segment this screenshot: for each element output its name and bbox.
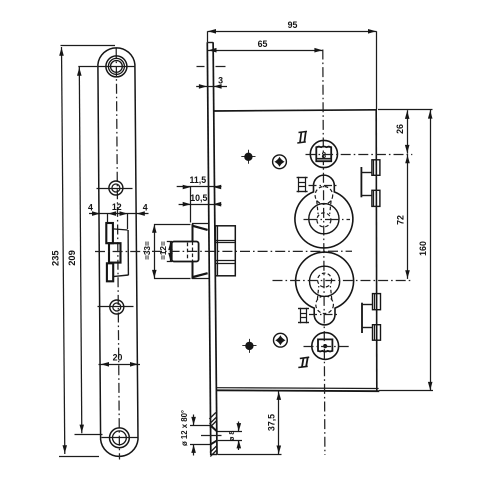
svg-text:10,5: 10,5 [190, 193, 207, 203]
back tab upper 1 [372, 160, 380, 176]
latch head top edge [192, 223, 209, 225]
latch front view middle block [109, 243, 121, 262]
bottom screw hole [110, 428, 130, 448]
latch tail lower band [216, 260, 236, 262]
upper small hole [109, 181, 123, 195]
follower bottom axis [304, 346, 352, 348]
follower top square [316, 147, 331, 162]
countersink funnel bottom [210, 440, 217, 445]
bracket upper [360, 167, 362, 197]
svg-text:209: 209 [67, 250, 77, 266]
cylinder bottom axis [273, 280, 411, 282]
top screw hole [106, 56, 127, 77]
latch axis centerline side [152, 250, 352, 252]
rivet bottom [246, 342, 253, 349]
cylinder top inner circle [309, 204, 339, 234]
dimension o12x80 [193, 415, 195, 426]
case top extension line [378, 109, 433, 111]
cylinder bottom outer profile [296, 252, 354, 325]
svg-text:160: 160 [418, 241, 428, 256]
faceplate side view back edge [213, 42, 217, 455]
top hole axis side view [197, 66, 205, 68]
svg-text:4: 4 [88, 202, 93, 212]
latch bevel bottom [193, 273, 208, 277]
latch head bottom edge [192, 278, 209, 280]
latch bevel top [193, 226, 208, 230]
screw bottom [274, 333, 288, 347]
svg-text:4: 4 [143, 203, 148, 213]
svg-text:72: 72 [395, 215, 405, 225]
follower bottom circle [312, 333, 339, 360]
dimension 3 [196, 86, 227, 88]
plate hatching [209, 413, 216, 420]
screw top [273, 155, 287, 169]
svg-text:37,5: 37,5 [266, 414, 276, 431]
lower small hole [110, 300, 124, 314]
latch head front edge [192, 224, 194, 242]
case bottom edge outer [216, 389, 379, 392]
dimension 37,5 [278, 391, 280, 454]
dimension o8 [238, 422, 240, 432]
dimension 72 [407, 155, 409, 279]
svg-text:3: 3 [218, 75, 223, 85]
dimension 26 [407, 110, 409, 153]
cylinder screw top [298, 177, 300, 193]
svg-text:12: 12 [112, 202, 122, 212]
svg-text:65: 65 [258, 39, 268, 49]
svg-text:=33=: =33= [143, 241, 152, 260]
case bottom edge inner [216, 387, 379, 390]
follower top axis [306, 154, 413, 156]
svg-text:20: 20 [113, 352, 123, 362]
svg-text:8: 8 [322, 151, 327, 160]
latch axis centerline front [95, 251, 149, 253]
latch nose block [172, 242, 199, 262]
case back edge [375, 110, 378, 391]
back tab lower 2 [373, 325, 381, 341]
latch tail upper band [216, 240, 236, 242]
svg-text:26: 26 [395, 124, 405, 134]
latch nose hidden edge [187, 243, 189, 261]
dimension 95 [208, 31, 377, 33]
latch front view lower block [107, 263, 113, 281]
faceplate front view outline [98, 48, 138, 457]
case bottom extension line [379, 390, 433, 392]
case top edge [213, 110, 377, 111]
dimension 235 [62, 47, 65, 454]
dimension 20 [99, 364, 141, 366]
svg-text:ø 8: ø 8 [227, 431, 236, 441]
dimension 10,5 [179, 204, 222, 206]
cylinder bottom cap axis [309, 314, 338, 316]
latch front view upper block [106, 223, 113, 243]
countersink hole axis [201, 435, 222, 437]
cylinder top outer profile [295, 175, 353, 248]
faceplate side top end [207, 42, 213, 44]
follower top circle [310, 140, 337, 167]
cylinder top axis [304, 219, 351, 221]
faceplate side view front edge [207, 42, 211, 455]
back tab upper 2 [372, 190, 380, 206]
svg-text:=12=: =12= [159, 241, 168, 260]
bracket lower [361, 303, 363, 333]
svg-text:235: 235 [50, 250, 60, 266]
rivet top [245, 153, 252, 160]
svg-text:95: 95 [288, 20, 298, 30]
dimension 160 [430, 110, 432, 391]
countersink funnel top [210, 425, 217, 431]
dimension 4-12-4 [89, 213, 149, 215]
faceplate side bottom end [211, 454, 218, 456]
latch front bevel edge top [113, 229, 128, 230]
latch front right edge [127, 230, 129, 275]
dimension 11,5 [177, 186, 222, 188]
vertical centerline through followers [323, 50, 325, 456]
cylinder top cap axis [309, 185, 338, 187]
latch tail block in case [216, 226, 236, 276]
dimension =33= [154, 224, 156, 279]
dimension =12= [170, 242, 172, 262]
numeral II top [299, 131, 308, 132]
follower bottom square [318, 339, 332, 351]
dimension 65 [208, 50, 323, 52]
follower bottom center dot [324, 345, 327, 348]
cylinder bottom inner circle [310, 266, 340, 296]
cylinder bottom hidden profile [316, 296, 334, 314]
dimension 209 [79, 67, 82, 433]
svg-text:11,5: 11,5 [189, 175, 206, 185]
cylinder top hidden profile [315, 187, 333, 205]
faceplate centerline [116, 49, 119, 460]
back tab lower 1 [373, 294, 381, 310]
latch front bevel edge bottom [113, 275, 128, 277]
cylinder screw bottom [300, 308, 302, 324]
numeral II bottom [300, 357, 309, 358]
svg-text:ø 12 x 80°: ø 12 x 80° [180, 410, 189, 446]
